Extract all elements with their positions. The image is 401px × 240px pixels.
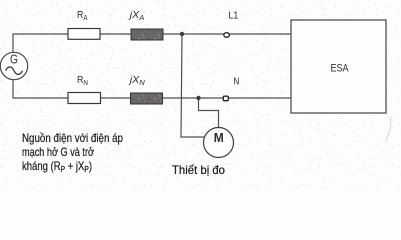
svg-text:mạch hở G và trở: mạch hở G và trở	[22, 145, 94, 159]
svg-text:Thiết bị đo: Thiết bị đo	[172, 163, 225, 177]
svg-text:kháng (RP + jXP): kháng (RP + jXP)	[22, 159, 92, 174]
svg-text:G: G	[10, 53, 18, 67]
svg-text:L1: L1	[229, 11, 239, 22]
svg-text:N: N	[234, 77, 240, 88]
svg-text:Nguồn điện với điện áp: Nguồn điện với điện áp	[22, 131, 123, 145]
svg-text:M: M	[214, 130, 224, 145]
svg-text:ESA: ESA	[331, 63, 350, 75]
